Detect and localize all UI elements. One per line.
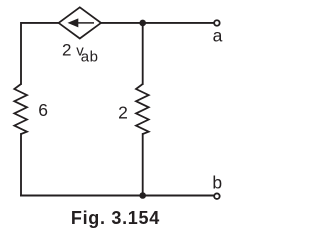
wire middle-lower (resistor to bottom node): [142, 134, 144, 196]
svg-text:a: a: [213, 25, 223, 45]
resistor 2 ohm (middle branch): [136, 84, 149, 134]
wire top-right (node to terminal a): [143, 22, 214, 24]
junction node top: [139, 20, 146, 27]
terminal b (open circle): [214, 193, 220, 199]
svg-text:Fig. 3.154: Fig. 3.154: [71, 208, 160, 228]
wire middle-upper (node to resistor): [142, 23, 144, 84]
svg-text:6: 6: [38, 100, 48, 120]
wire top-left (corner to source): [21, 23, 59, 84]
terminal a (open circle): [214, 20, 220, 26]
wire bottom (left corner to terminal b): [21, 195, 214, 197]
dependent current source 2v_ab (diamond): [59, 7, 101, 38]
wire left-lower (resistor to bottom): [20, 134, 22, 196]
resistor 6 ohm (left branch): [14, 84, 27, 134]
svg-text:2: 2: [118, 102, 128, 122]
wire top-middle (source to node): [101, 22, 143, 24]
junction node bottom: [139, 192, 146, 199]
svg-text:b: b: [212, 173, 222, 193]
